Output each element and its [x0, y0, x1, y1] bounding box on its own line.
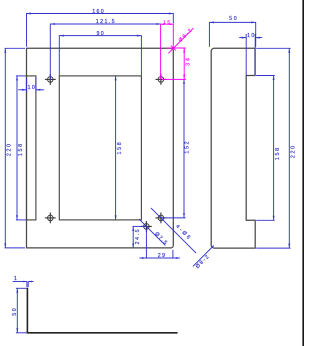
svg-text:158: 158	[18, 144, 24, 156]
svg-text:90: 90	[97, 31, 104, 37]
side view outline	[211, 48, 255, 248]
leader diam 8-2 blue side view corner	[193, 246, 214, 270]
magenta dimension 34	[162, 48, 191, 79]
svg-text:220: 220	[6, 144, 12, 156]
svg-text:1: 1	[14, 276, 17, 282]
hole H1 top-left	[45, 74, 56, 85]
svg-text:50: 50	[12, 308, 18, 316]
plate outline front view	[27, 48, 174, 248]
svg-text:34: 34	[185, 58, 191, 66]
dimension 121.5	[50, 19, 161, 79]
magenta dimension 15 top right	[161, 19, 174, 79]
dimension 29	[139, 230, 180, 260]
hole H3 bottom-left	[45, 213, 56, 224]
dimension 10 side view	[239, 33, 262, 76]
dimension 158 slot	[16, 76, 26, 220]
svg-text:152: 152	[185, 141, 191, 153]
dimension 158 opening	[115, 76, 123, 220]
hole H5 diam 7.5	[141, 221, 152, 232]
dimension 160	[27, 9, 174, 47]
dimension 220 side view	[256, 48, 296, 248]
svg-text:50: 50	[229, 16, 237, 22]
leader 4-diam-6	[151, 208, 196, 253]
dimension 90	[59, 31, 141, 76]
svg-text:158: 158	[117, 142, 123, 154]
svg-text:10: 10	[247, 33, 254, 39]
svg-text:29: 29	[158, 253, 165, 259]
svg-text:10: 10	[28, 85, 35, 91]
svg-text:160: 160	[92, 9, 104, 15]
dimension 220 left	[4, 48, 25, 248]
left slot rectangle	[27, 76, 36, 220]
frame border right	[302, 0, 304, 346]
hole H4 bottom-right	[156, 213, 167, 224]
svg-text:121.5: 121.5	[96, 19, 115, 25]
dimension 158 side view	[256, 76, 281, 221]
magenta leader diam 8-2 plate corner	[168, 28, 193, 53]
svg-text:15: 15	[163, 19, 170, 24]
svg-text:220: 220	[290, 146, 296, 158]
svg-text:158: 158	[275, 148, 281, 160]
dimension 24.5	[132, 226, 145, 248]
dimension 152	[162, 79, 191, 218]
bottom view L-profile	[27, 288, 177, 333]
dimension 50 side view	[209, 16, 255, 47]
dimension 10 slot	[18, 78, 44, 92]
hole H2 top-right	[156, 74, 167, 85]
dimension 50 bottom view	[12, 288, 26, 333]
dimension 1 bottom view	[13, 276, 34, 287]
opening rectangle	[59, 76, 141, 220]
leader diam 7.5	[139, 219, 168, 246]
